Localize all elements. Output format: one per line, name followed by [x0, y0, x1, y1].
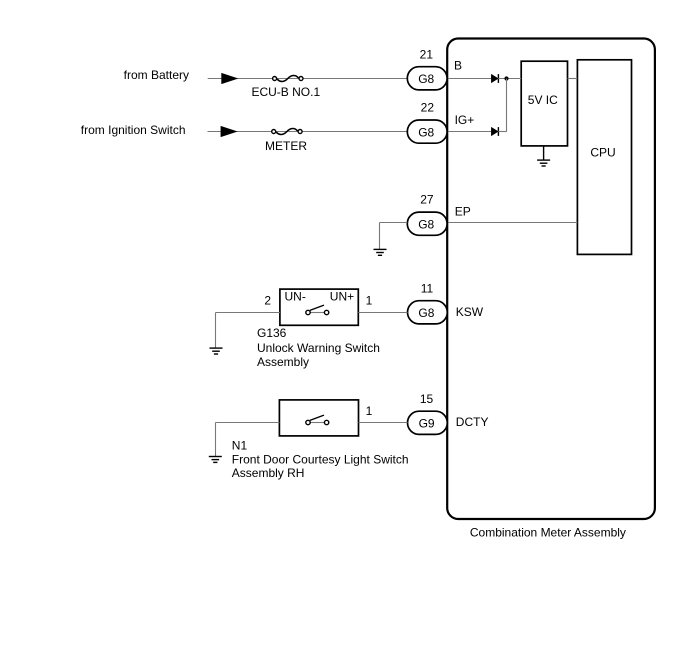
arrow from Ignition Switch [221, 126, 238, 137]
wire S1 to ground [216, 312, 280, 314]
wire diode to 5V IC [498, 78, 521, 80]
svg-text:G9: G9 [419, 417, 435, 431]
wire G8 to ground [380, 222, 408, 224]
ground at EP [374, 249, 387, 255]
svg-text:G8: G8 [418, 217, 434, 231]
svg-text:N1: N1 [232, 438, 248, 452]
wire S2 to ground [216, 422, 280, 424]
diode D1 [491, 74, 498, 83]
ground at S2 [209, 457, 222, 463]
svg-text:Assembly RH: Assembly RH [232, 466, 305, 480]
wire 5V IC to CPU [568, 78, 578, 80]
wire S1 to G8 [358, 312, 407, 314]
svg-text:Assembly: Assembly [257, 355, 309, 369]
svg-text:Unlock Warning Switch: Unlock Warning Switch [257, 341, 380, 355]
svg-text:11: 11 [421, 282, 434, 296]
svg-text:DCTY: DCTY [456, 415, 489, 429]
switch S2 contacts [306, 415, 329, 425]
wire from Ignition Switch to G8 [208, 131, 408, 133]
switch S1 contacts [306, 305, 329, 315]
wire S2 to G9 [359, 422, 408, 424]
combination meter assembly box [447, 39, 655, 520]
svg-text:22: 22 [421, 101, 435, 115]
diode D2 [491, 127, 498, 136]
svg-text:1: 1 [366, 294, 373, 308]
svg-text:G8: G8 [418, 125, 434, 139]
svg-text:IG+: IG+ [455, 113, 475, 127]
connector G9 pin 15 [408, 411, 448, 434]
svg-text:15: 15 [420, 392, 434, 406]
connector G8 pin 27 [407, 212, 447, 235]
svg-text:UN-: UN- [285, 289, 306, 303]
svg-text:27: 27 [420, 193, 434, 207]
svg-text:Front Door Courtesy Light Swit: Front Door Courtesy Light Switch [232, 452, 409, 466]
svg-text:2: 2 [264, 294, 271, 308]
svg-text:from Ignition Switch: from Ignition Switch [81, 123, 186, 137]
svg-text:G8: G8 [418, 306, 434, 320]
svg-text:5V IC: 5V IC [528, 93, 558, 107]
connector G8 pin 22 [407, 120, 447, 143]
svg-text:from Battery: from Battery [124, 68, 189, 82]
node junction dot [504, 76, 508, 80]
svg-text:G136: G136 [257, 326, 287, 340]
svg-text:CPU: CPU [590, 146, 615, 160]
svg-text:Combination Meter Assembly: Combination Meter Assembly [470, 525, 626, 539]
svg-text:EP: EP [455, 205, 471, 219]
wire IG+ inside box [448, 131, 491, 133]
svg-text:METER: METER [265, 139, 307, 153]
wire diode to junction [498, 131, 507, 133]
switch S2 box [279, 400, 358, 436]
fuse ECU-B NO.1 [273, 75, 303, 81]
wire junction down to IG+ diode [506, 79, 508, 132]
5V IC U1 [521, 61, 567, 146]
svg-text:B: B [454, 58, 462, 72]
wire B inside box [448, 78, 491, 80]
fuse METER [272, 128, 302, 134]
CPU U2 [577, 60, 631, 255]
svg-text:21: 21 [420, 48, 434, 62]
wire from Battery to G8 [208, 78, 408, 80]
connector G8 pin 21 [407, 67, 447, 90]
svg-text:1: 1 [366, 404, 373, 418]
ground below 5V IC [537, 146, 550, 166]
switch S1 box [280, 289, 358, 325]
arrow from Battery [221, 73, 238, 84]
svg-text:KSW: KSW [456, 305, 484, 319]
svg-text:UN+: UN+ [330, 289, 354, 303]
svg-text:ECU-B NO.1: ECU-B NO.1 [251, 85, 320, 99]
connector G8 pin 11 [408, 301, 448, 324]
wire EP to CPU [448, 222, 577, 224]
svg-text:G8: G8 [418, 72, 434, 86]
ground at S1 [210, 348, 223, 354]
